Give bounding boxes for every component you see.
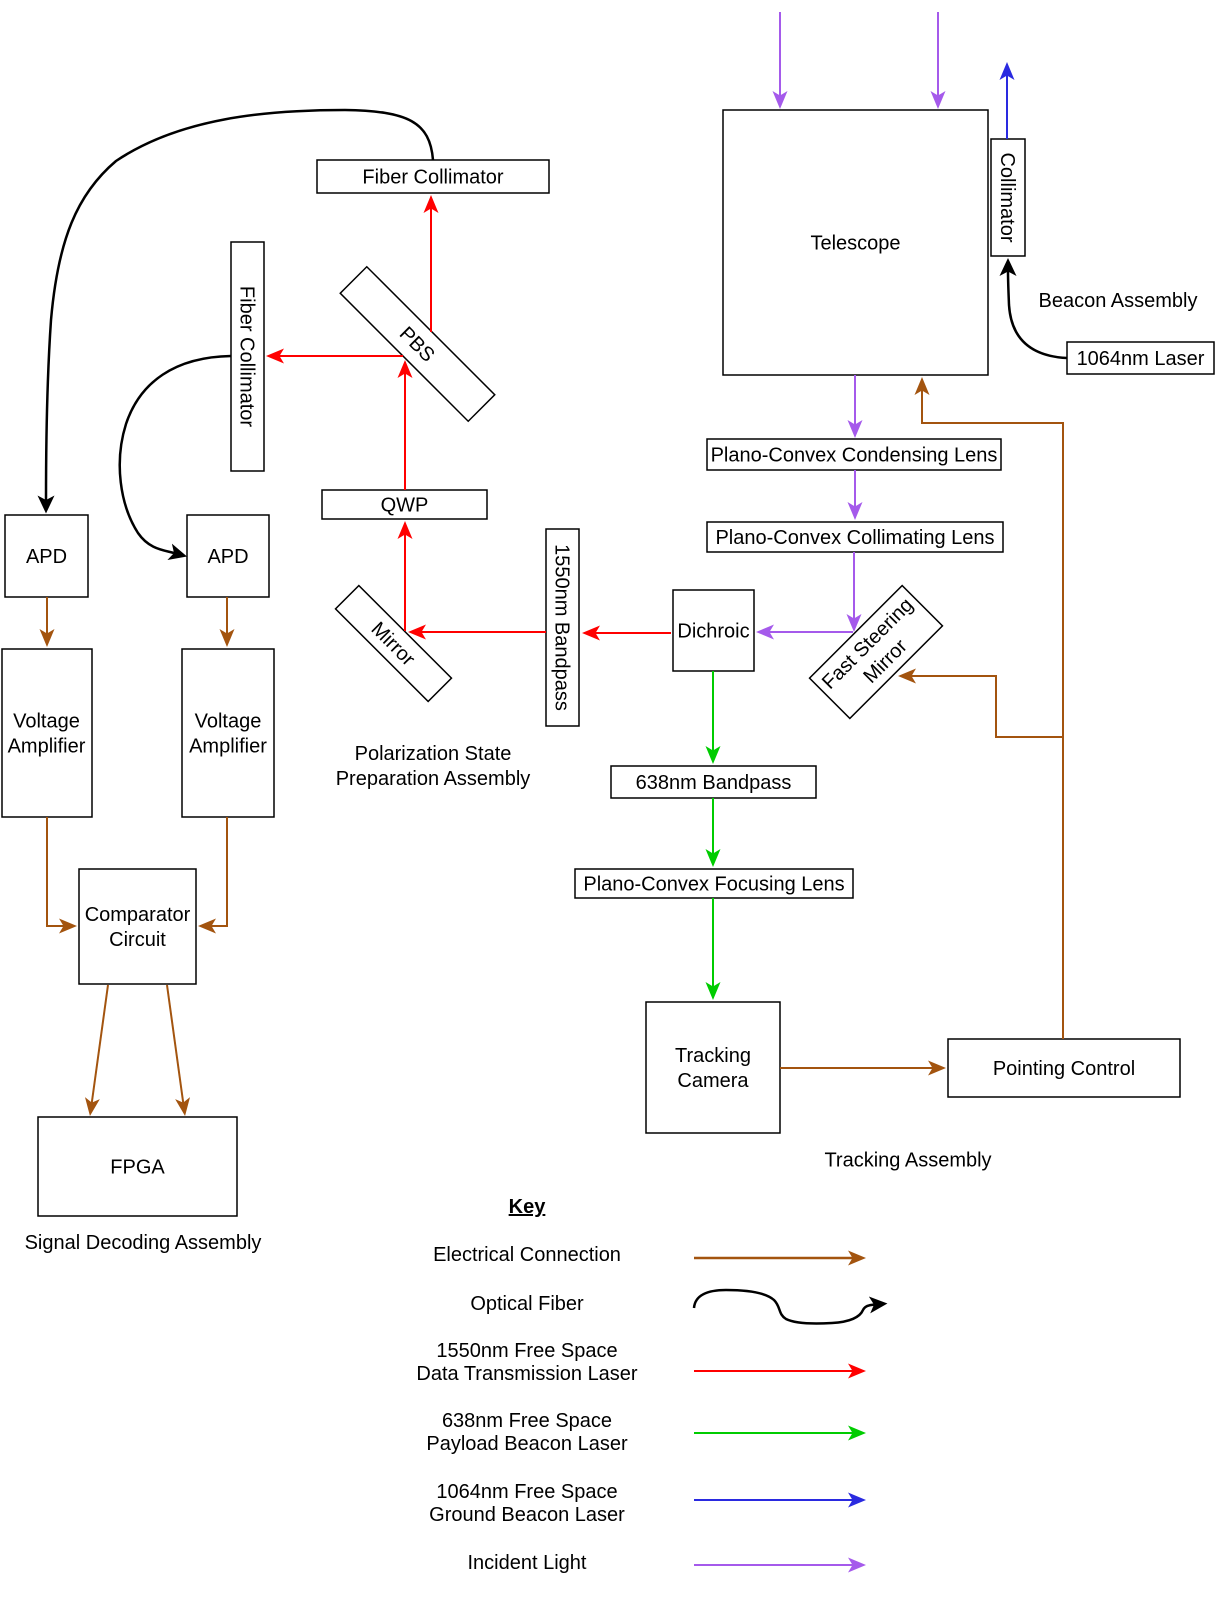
svg-text:1550nm Free Space: 1550nm Free Space: [436, 1340, 617, 1362]
1550nm laser arrow PBS to top fiber collimator: [430, 209, 432, 333]
key squiggle optical fiber: [694, 1290, 874, 1324]
box Voltage Amplifier 2: [182, 649, 274, 817]
key arrow 638nm laser: [694, 1432, 853, 1434]
electrical connection pointing control to telescope: [922, 391, 1063, 1040]
1550nm laser arrow 1550nm bandpass to mirror: [422, 631, 547, 633]
box PBS (rotated): [340, 267, 495, 422]
svg-text:Plano-Convex Focusing Lens: Plano-Convex Focusing Lens: [583, 874, 844, 896]
svg-text:1064nm Laser: 1064nm Laser: [1077, 348, 1205, 370]
svg-text:Tracking: Tracking: [675, 1045, 751, 1067]
svg-text:1064nm Free Space: 1064nm Free Space: [436, 1481, 617, 1503]
svg-text:638nm Bandpass: 638nm Bandpass: [636, 772, 792, 794]
svg-text:Polarization State: Polarization State: [355, 743, 512, 765]
box Collimator: [991, 139, 1025, 256]
box Plano-Convex Focusing Lens: [575, 869, 853, 898]
svg-text:1550nm Bandpass: 1550nm Bandpass: [551, 544, 573, 711]
electrical connection pointing control to fast steering mirror: [912, 676, 1064, 737]
box 638nm Bandpass: [611, 766, 816, 798]
incident light arrow 2 into telescope top: [937, 12, 939, 96]
incident light arrow collimating lens to fast steering mirror: [853, 552, 855, 619]
svg-text:APD: APD: [26, 546, 67, 568]
label Polarization State Preparation Assembly: [336, 743, 531, 790]
incident light arrow telescope to condensing lens: [854, 375, 856, 425]
box Fast Steering Mirror (rotated): [810, 586, 943, 719]
svg-text:Telescope: Telescope: [810, 233, 900, 255]
svg-text:Key: Key: [509, 1196, 547, 1218]
key arrow electrical connection: [694, 1257, 853, 1260]
svg-text:Circuit: Circuit: [109, 929, 166, 951]
svg-text:Voltage: Voltage: [195, 711, 262, 733]
svg-text:Incident Light: Incident Light: [468, 1552, 587, 1574]
svg-text:Amplifier: Amplifier: [8, 736, 86, 758]
electrical connection APD 2 to voltage amplifier 2: [226, 597, 228, 634]
svg-text:Data Transmission Laser: Data Transmission Laser: [416, 1363, 638, 1385]
box Fiber Collimator (top): [317, 160, 549, 193]
key arrow 1064nm laser: [694, 1499, 853, 1501]
incident light arrow 1 into telescope top: [779, 12, 781, 96]
box Voltage Amplifier 1: [2, 649, 92, 817]
1550nm laser arrow dichroic to 1550nm bandpass: [596, 632, 672, 634]
box APD 2: [187, 515, 269, 597]
box Telescope: [723, 110, 988, 375]
svg-text:Optical Fiber: Optical Fiber: [470, 1293, 584, 1315]
svg-text:Fiber Collimator: Fiber Collimator: [362, 167, 503, 189]
svg-text:Payload Beacon Laser: Payload Beacon Laser: [426, 1433, 628, 1455]
box Mirror (rotated): [336, 586, 452, 702]
svg-text:Fiber Collimator: Fiber Collimator: [236, 286, 258, 427]
svg-text:Plano-Convex Collimating Lens: Plano-Convex Collimating Lens: [715, 527, 994, 549]
svg-text:QWP: QWP: [381, 495, 429, 517]
svg-text:Collimator: Collimator: [996, 152, 1018, 242]
box 1064nm Laser: [1067, 342, 1214, 374]
box FPGA: [38, 1117, 237, 1216]
1550nm laser arrow QWP to PBS: [404, 374, 406, 491]
box Fiber Collimator (vertical): [231, 242, 264, 471]
svg-text:Ground Beacon Laser: Ground Beacon Laser: [429, 1504, 625, 1526]
electrical connection tracking camera to pointing control: [780, 1067, 933, 1069]
638nm laser arrow focusing lens to tracking camera: [712, 898, 714, 987]
svg-text:Camera: Camera: [677, 1070, 749, 1092]
svg-text:Dichroic: Dichroic: [677, 621, 749, 643]
box QWP: [322, 490, 487, 519]
box Tracking Camera: [646, 1002, 780, 1133]
box 1550nm Bandpass: [546, 529, 579, 726]
key arrow incident light: [694, 1564, 853, 1566]
svg-text:Amplifier: Amplifier: [189, 736, 267, 758]
optical fiber from vertical fiber collimator to APD 2: [120, 356, 231, 553]
box Plano-Convex Condensing Lens: [707, 439, 1001, 470]
svg-text:Plano-Convex Condensing Lens: Plano-Convex Condensing Lens: [711, 445, 998, 467]
box APD 1: [5, 515, 88, 597]
incident light arrow condensing to collimating lens: [854, 470, 856, 507]
svg-text:638nm Free Space: 638nm Free Space: [442, 1410, 612, 1432]
svg-text:Pointing Control: Pointing Control: [993, 1058, 1135, 1080]
svg-text:Tracking Assembly: Tracking Assembly: [824, 1150, 991, 1172]
box Dichroic: [673, 590, 754, 671]
638nm laser arrow bandpass to focusing lens: [712, 798, 714, 854]
1550nm laser arrow PBS to vertical fiber collimator: [280, 355, 404, 357]
svg-text:Electrical Connection: Electrical Connection: [433, 1244, 621, 1266]
svg-text:Signal Decoding Assembly: Signal Decoding Assembly: [25, 1232, 262, 1254]
incident light arrow fast steering mirror to dichroic: [770, 631, 854, 633]
svg-text:Beacon Assembly: Beacon Assembly: [1039, 290, 1198, 312]
box Plano-Convex Collimating Lens: [707, 522, 1003, 552]
optical fiber from 1064nm laser to collimator: [1008, 272, 1067, 359]
optical fiber from top fiber collimator to APD 1: [46, 110, 433, 500]
1550nm laser arrow mirror to QWP: [404, 535, 406, 632]
label 1550nm Free Space Data Transmission Laser: [416, 1340, 638, 1385]
electrical connection voltage amplifier 2 to comparator: [212, 817, 228, 926]
electrical connection comparator to FPGA right: [167, 985, 183, 1103]
638nm laser arrow dichroic to 638nm bandpass: [712, 671, 714, 751]
electrical connection voltage amplifier 1 to comparator: [47, 817, 64, 926]
label 1064nm Free Space Ground Beacon Laser: [429, 1481, 625, 1526]
svg-text:Preparation Assembly: Preparation Assembly: [336, 768, 531, 790]
svg-text:FPGA: FPGA: [110, 1157, 165, 1179]
label 638nm Free Space Payload Beacon Laser: [426, 1410, 628, 1455]
box Comparator Circuit: [79, 869, 196, 984]
1064nm ground beacon laser arrow up from collimator: [1006, 76, 1008, 140]
electrical connection APD 1 to voltage amplifier 1: [46, 597, 48, 634]
svg-text:Comparator: Comparator: [85, 904, 191, 926]
svg-text:Voltage: Voltage: [13, 711, 80, 733]
box Pointing Control: [948, 1039, 1180, 1097]
key arrow 1550nm laser: [694, 1370, 853, 1372]
electrical connection comparator to FPGA left: [92, 985, 108, 1103]
svg-text:APD: APD: [207, 546, 248, 568]
